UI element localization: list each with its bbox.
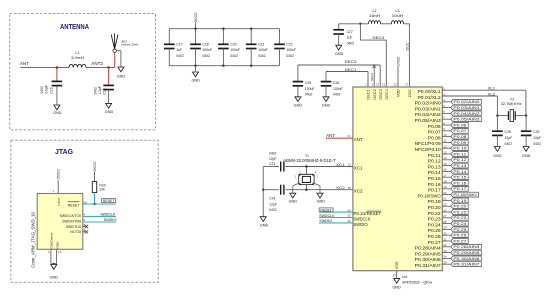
svg-text:45: 45 [393,273,396,277]
svg-text:P0.19: P0.19 [428,199,442,204]
antenna section box [10,14,156,130]
svg-text:P0.08: P0.08 [453,134,467,139]
inductor L1 [69,64,86,67]
capacitor C24 (series plates on XC2 line) [280,185,282,195]
ground (Y1 shield right) [317,193,323,198]
capacitor C26 [325,72,327,82]
antenna AE1 [113,49,116,52]
svg-text:P0.16: P0.16 [428,182,442,187]
wire bottom rail [169,65,279,67]
junction (C27/DEC4) [359,23,361,25]
wire DEC3 net [298,64,380,66]
svg-text:P0.20: P0.20 [428,205,442,210]
svg-text:P0.26: P0.26 [428,234,442,239]
wire DEC4 net [359,24,361,40]
wire OVCC to R20 [94,172,96,181]
svg-text:0402: 0402 [258,54,266,58]
wire XC2 [263,189,279,191]
svg-text:ANTENNA: ANTENNA [60,24,89,31]
svg-text:RESET: RESET [68,203,80,207]
svg-text:P0.13: P0.13 [453,163,467,168]
svg-text:P0.15: P0.15 [428,176,442,181]
svg-text:P0.26: P0.26 [453,233,467,238]
svg-text:0402: 0402 [533,142,541,146]
svg-text:P0.02/AIN0: P0.02/AIN0 [415,101,442,106]
svg-text:C24: C24 [269,197,275,201]
capacitor C23 (series plates on XC1 line) [280,162,282,172]
svg-text:GND: GND [117,75,126,79]
svg-text:1.2pF: 1.2pF [98,86,102,94]
capacitor C29 [525,116,527,131]
svg-text:C29: C29 [533,130,539,134]
svg-text:DEC2: DEC2 [373,89,377,100]
svg-text:VTref: VTref [57,198,61,206]
svg-text:100nF: 100nF [230,48,240,52]
svg-text:GND: GND [260,224,269,228]
svg-text:100nF: 100nF [202,48,212,52]
svg-text:25: 25 [347,214,351,218]
svg-text:0402: 0402 [176,54,184,58]
svg-text:P0.11: P0.11 [428,153,442,158]
capacitor C19 [108,68,110,85]
svg-text:XC2: XC2 [336,185,346,190]
wire ANT net to IC (highlighted red) [326,137,353,139]
svg-text:0.8pF: 0.8pF [45,85,49,93]
svg-text:P0.15: P0.15 [453,175,467,180]
wire XL2 [442,95,497,97]
svg-text:ANT: ANT [326,133,335,138]
svg-text:SWD/TDO: SWD/TDO [66,225,82,229]
svg-text:C22: C22 [286,42,292,46]
svg-text:ABM8-32.000MHZ-9-D1E-T: ABM8-32.000MHZ-9-D1E-T [283,158,336,163]
svg-text:P0.30/AIN6: P0.30/AIN6 [453,256,480,261]
svg-text:GND: GND [294,103,303,107]
svg-text:DEC2: DEC2 [370,73,374,81]
capacitor C25 [297,65,299,81]
svg-text:1uF: 1uF [347,36,353,40]
inductor L2 [369,21,381,24]
svg-text:GNDDetect: GNDDetect [50,233,54,249]
IC U4 nRF52832 body [353,87,442,271]
svg-text:XC2: XC2 [354,189,363,194]
svg-text:P0.17: P0.17 [428,188,442,193]
svg-text:15nH: 15nH [369,14,381,18]
svg-text:XC1: XC1 [354,165,363,170]
svg-text:100uF: 100uF [305,87,315,91]
wire antenna shield to gnd [116,50,121,52]
svg-text:10: 10 [83,200,87,204]
ground (VSS) [394,278,400,283]
svg-text:P0.07: P0.07 [453,128,467,133]
pin 10 RESET (boxed pin name) [68,201,80,203]
svg-text:P0.13: P0.13 [428,164,442,169]
svg-text:DEC1: DEC1 [345,67,357,72]
svg-text:P0.31/AIN7: P0.31/AIN7 [415,263,442,268]
capacitor C20 [222,29,224,44]
junction at ANT2/C19 [107,66,110,69]
svg-text:GND: GND [335,52,344,56]
svg-text:P0.05/AIN3: P0.05/AIN3 [415,118,442,123]
svg-text:SWDCLK: SWDCLK [319,214,335,218]
svg-text:GND: GND [522,154,531,158]
svg-text:C21: C21 [258,42,264,46]
svg-text:100nF: 100nF [333,87,343,91]
svg-text:P0.14: P0.14 [428,170,442,175]
wire ANT net (highlighted red) [20,67,69,69]
svg-text:23: 23 [394,83,397,87]
svg-text:SWDIO: SWDIO [319,219,332,223]
svg-text:L3: L3 [396,9,400,13]
svg-text:GND: GND [50,275,59,279]
svg-text:0402: 0402 [269,208,277,212]
svg-text:P0.12: P0.12 [428,159,442,164]
svg-text:P0.03/AIN1: P0.03/AIN1 [453,105,480,110]
svg-text:C20: C20 [230,42,236,46]
svg-text:ANT: ANT [20,61,29,66]
svg-text:RESET: RESET [103,199,115,203]
svg-text:P0.09: P0.09 [453,140,467,145]
svg-text:VDD: VDD [397,89,401,97]
resistor R20 [92,182,96,193]
svg-text:35: 35 [348,186,352,190]
capacitor C22 [279,29,281,44]
svg-text:P0.27: P0.27 [453,238,467,243]
wire SWDCLK net [83,215,116,217]
svg-text:P0.18/SWO: P0.18/SWO [418,193,442,198]
svg-text:P0.29/AIN5: P0.29/AIN5 [453,250,480,255]
svg-text:NFC2/P0.10: NFC2/P0.10 [415,147,442,152]
svg-text:30: 30 [347,134,351,138]
svg-text:P0.19: P0.19 [453,198,467,203]
svg-text:12pF: 12pF [533,136,541,140]
svg-text:ANT2: ANT2 [91,61,103,66]
svg-text:OVCC: OVCC [397,56,401,66]
svg-text:23: 23 [348,163,352,167]
svg-text:XL1: XL1 [488,86,496,91]
pin 8 NC/TDI no-connect [83,231,86,233]
gnd rail left of crystal [262,167,264,217]
svg-text:P0.31/AIN7: P0.31/AIN7 [453,262,480,267]
pin DEC1 wire handled above; pin DEC2 no-connect [373,67,375,87]
svg-text:P0.28/AIN4: P0.28/AIN4 [415,246,442,251]
wire DEC1 net [326,71,368,73]
svg-text:10uH: 10uH [392,14,404,18]
ground (C19) [106,103,112,108]
svg-text:GND: GND [56,241,60,249]
svg-text:DEC3: DEC3 [379,89,383,100]
svg-text:3,5: 3,5 [58,250,62,254]
svg-text:XL2: XL2 [488,91,496,96]
svg-text:L1: L1 [76,51,80,55]
ground (C16) [54,105,60,110]
ground (cap row) [195,66,197,72]
svg-text:P0.30/AIN6: P0.30/AIN6 [415,257,442,262]
ground (Y1 shield left) [290,193,296,198]
svg-text:0402: 0402 [230,54,238,58]
svg-text:SWDCLK: SWDCLK [100,213,116,217]
svg-text:12pF: 12pF [269,157,277,161]
svg-text:OVCC: OVCC [92,161,97,171]
svg-text:0402: 0402 [269,152,277,156]
svg-text:P0.25: P0.25 [428,228,442,233]
svg-text:0402: 0402 [93,87,97,95]
svg-text:GND: GND [289,200,298,204]
svg-text:Y2: Y2 [510,97,514,101]
svg-text:RESET: RESET [367,211,382,216]
connector J1 Conn_ARM_JTAG_SWD_10 [37,194,83,250]
svg-text:P0.08: P0.08 [428,135,442,140]
svg-text:15: 15 [382,83,385,87]
svg-text:DCC: DCC [405,42,410,50]
svg-text:0402: 0402 [333,93,341,97]
svg-text:P0.20: P0.20 [453,204,467,209]
svg-text:SWDCLK/TCK: SWDCLK/TCK [60,214,82,218]
svg-text:DEC3: DEC3 [345,59,357,64]
capacitor C17 [168,29,170,44]
ground (C25) [295,97,301,102]
svg-text:C16: C16 [49,87,53,93]
svg-text:1uF: 1uF [176,48,182,52]
svg-text:C25: C25 [305,81,311,85]
svg-text:ANT: ANT [354,137,363,142]
svg-text:P0.11: P0.11 [453,151,467,156]
svg-text:SWDIO: SWDIO [104,218,117,222]
wire SWDIO net [83,221,116,223]
svg-text:VSS: VSS [395,261,399,270]
ground (crystal rail) [260,217,266,222]
svg-text:P0.22: P0.22 [428,211,442,216]
svg-text:P0.21/: P0.21/ [353,211,367,216]
svg-text:P0.12: P0.12 [453,157,467,162]
svg-text:12pF: 12pF [505,136,513,140]
jtag section box [11,140,158,282]
svg-text:P0.23: P0.23 [428,217,442,222]
wire top rail [169,28,279,30]
junction [194,28,196,30]
svg-text:DEC1: DEC1 [367,89,371,100]
junction [222,28,224,30]
svg-text:P0.17: P0.17 [453,186,467,191]
svg-text:GND: GND [392,285,401,289]
svg-text:C19: C19 [103,88,107,94]
svg-text:OVCC: OVCC [56,169,61,179]
wire R20 to RESET net (teal highlight) [94,193,96,205]
svg-text:100nF: 100nF [258,48,268,52]
wire RESET net [83,203,116,205]
capacitor C18 [195,29,197,44]
svg-text:0402: 0402 [202,54,210,58]
capacitor C16 [56,68,58,81]
svg-text:DEC4: DEC4 [373,35,385,40]
svg-text:P0.01/XL2: P0.01/XL2 [418,95,442,100]
svg-text:100nF: 100nF [286,48,296,52]
svg-text:C28: C28 [505,130,511,134]
svg-text:P0.00/XL1: P0.00/XL1 [418,89,442,94]
pin 6 SWD/TDO no-connect [83,226,86,228]
svg-text:OVCC: OVCC [193,12,198,22]
svg-text:P0.05/AIN3: P0.05/AIN3 [453,117,480,122]
svg-text:DEC4: DEC4 [385,89,389,100]
svg-text:DCC: DCC [408,89,412,97]
inductor L3 [392,21,404,24]
svg-text:17: 17 [405,83,408,87]
svg-text:GND: GND [191,78,200,82]
svg-text:P0.22: P0.22 [453,209,467,214]
svg-text:NC/TDI: NC/TDI [70,230,81,234]
capacitor C21 [250,29,252,44]
svg-text:JTAG: JTAG [55,149,74,156]
wire pin1 to OVCC [57,180,59,194]
wire RESET to IC (teal) [319,211,353,213]
svg-text:P0.29/AIN5: P0.29/AIN5 [415,251,442,256]
svg-text:P0.06: P0.06 [428,124,442,129]
svg-text:P0.24: P0.24 [453,221,467,226]
ground (C27) [336,45,342,50]
svg-text:P0.27: P0.27 [428,240,442,245]
svg-text:P0.28/AIN4: P0.28/AIN4 [453,244,480,249]
ground (JTAG) [53,263,55,266]
svg-text:P0.24: P0.24 [428,222,442,227]
global label RESET [102,199,116,203]
svg-text:26: 26 [347,219,351,223]
svg-text:C27: C27 [347,30,353,34]
wire SWDIO to IC (teal) [319,222,353,224]
svg-text:GND: GND [317,200,326,204]
svg-text:L2: L2 [373,9,377,13]
svg-text:Conn_ARM_JTAG_SWD_10: Conn_ARM_JTAG_SWD_10 [30,211,35,268]
svg-text:P0.10: P0.10 [453,146,467,151]
svg-text:C18: C18 [202,42,208,46]
svg-text:13: 13 [376,83,379,87]
svg-text:GND: GND [493,154,502,158]
capacitor C27 [338,24,340,30]
svg-text:RESET: RESET [320,208,332,212]
svg-text:P0.03/AIN1: P0.03/AIN1 [415,106,442,111]
wire XL1 [442,89,526,91]
wire SWDCLK to IC (teal) [319,217,353,219]
svg-text:C17: C17 [176,42,182,46]
svg-text:GND: GND [53,111,62,115]
crystal shield gnd stubs [293,183,299,186]
svg-text:P0.14: P0.14 [453,169,467,174]
svg-text:0402: 0402 [286,54,294,58]
svg-text:0402: 0402 [505,142,513,146]
svg-text:SWDIO/TMS: SWDIO/TMS [62,220,82,224]
svg-text:24: 24 [347,208,351,212]
svg-text:32.768 KHz: 32.768 KHz [501,102,522,106]
svg-text:P0.07: P0.07 [428,130,442,135]
ground (antenna shield) [118,67,124,72]
svg-text:0402: 0402 [347,41,355,45]
svg-text:GND: GND [322,103,331,107]
svg-text:P0.06: P0.06 [453,122,467,127]
svg-text:XC1: XC1 [336,162,346,167]
svg-text:12pF: 12pF [269,202,277,206]
svg-text:0402: 0402 [40,86,44,94]
svg-text:Antenna_Shield: Antenna_Shield [121,43,138,47]
svg-text:nRF52832 - QFxx: nRF52832 - QFxx [402,280,432,285]
svg-text:0402: 0402 [305,93,313,97]
svg-text:3.9nH: 3.9nH [71,56,85,60]
svg-text:P0.18/SWO: P0.18/SWO [453,192,476,197]
svg-text:P0.25: P0.25 [453,227,467,232]
svg-text:C23: C23 [269,162,275,166]
svg-text:P0.02/AIN0: P0.02/AIN0 [453,99,480,104]
wire OVCC to rail [195,23,197,29]
svg-text:SWDCLK: SWDCLK [353,216,370,221]
svg-text:U4: U4 [402,274,408,279]
svg-text:P0.04/AIN2: P0.04/AIN2 [415,112,442,117]
ground (C28) [494,147,500,152]
svg-text:SWDIO: SWDIO [353,222,368,227]
ground (C29) [523,147,529,152]
svg-text:10k: 10k [99,188,105,192]
svg-text:P0.23: P0.23 [453,215,467,220]
svg-text:NFC1/P0.09: NFC1/P0.09 [415,141,442,146]
svg-text:GND: GND [105,110,114,114]
junction at C16 [56,66,59,69]
junction [250,28,252,30]
svg-text:C26: C26 [333,81,339,85]
crystal Y1 circuit: wire XC1 [263,166,279,168]
ground (C26) [323,97,329,102]
wire DCC filter rail [339,23,369,25]
svg-text:P0.16: P0.16 [453,180,467,185]
svg-text:P0.04/AIN2: P0.04/AIN2 [453,111,480,116]
capacitor C28 [496,116,498,131]
